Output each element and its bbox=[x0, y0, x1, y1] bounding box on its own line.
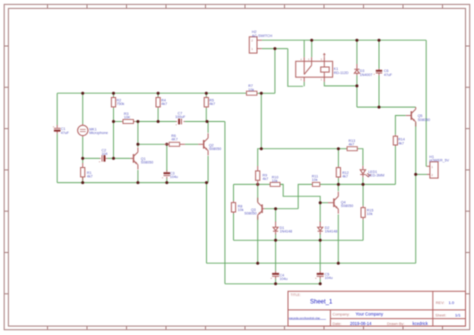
junction Q4 emitter / ground line bbox=[337, 262, 340, 265]
diode D1 bbox=[273, 222, 292, 235]
svg-text:+: + bbox=[99, 159, 101, 163]
svg-text:LED-3MM: LED-3MM bbox=[368, 174, 384, 178]
resistor R1 bbox=[81, 163, 93, 181]
junction R4 top / +V rail bbox=[157, 92, 160, 95]
connector H1 bbox=[427, 155, 450, 178]
svg-text:750k: 750k bbox=[117, 102, 125, 106]
svg-text:Sheet:: Sheet: bbox=[435, 313, 446, 317]
wire R1 branch bbox=[82, 158, 84, 182]
svg-text:+: + bbox=[162, 175, 164, 179]
wire D2 to steering line bbox=[319, 234, 321, 241]
svg-text:REV:: REV: bbox=[436, 301, 445, 305]
capacitor C3 bbox=[162, 170, 178, 179]
junction ground rail drop bbox=[205, 181, 208, 184]
wire relay common drop bbox=[288, 49, 303, 87]
junction R12 bottom / Q4 collector node bbox=[337, 183, 340, 186]
capacitor C2 bbox=[99, 148, 108, 163]
junction D3 bottom / relay coil return bbox=[355, 84, 358, 87]
wire R12 branch bbox=[337, 149, 339, 185]
junction D1 bottom / C4 top / steering line bbox=[274, 239, 277, 242]
junction D3 top / +5V line bbox=[355, 39, 358, 42]
wire C7 to Q2 collector node bbox=[185, 121, 225, 123]
svg-text:4k7: 4k7 bbox=[342, 175, 348, 179]
transistor Q5 bbox=[406, 107, 430, 126]
capacitor C7 bbox=[175, 111, 186, 126]
junction C2 right / R2-R3 drop / Q1 base bbox=[112, 157, 115, 160]
resistor R4 bbox=[156, 97, 167, 108]
svg-text:1N4148: 1N4148 bbox=[325, 229, 338, 233]
wire D1 to steering line bbox=[275, 234, 277, 241]
svg-text:1N4148: 1N4148 bbox=[280, 229, 293, 233]
wire R8 branch bbox=[233, 184, 235, 240]
wire R13 to LED bbox=[358, 149, 363, 166]
wire R4 branch bbox=[157, 93, 159, 121]
svg-text:100uF: 100uF bbox=[175, 115, 186, 119]
wire relay common pin fall bbox=[303, 82, 305, 87]
svg-text:4k7: 4k7 bbox=[209, 102, 215, 106]
svg-text:TITLE:: TITLE: bbox=[291, 293, 301, 297]
wire relay NO riser bbox=[303, 40, 305, 57]
capacitor C5 bbox=[315, 271, 333, 280]
svg-text:10k: 10k bbox=[248, 88, 254, 92]
junction R7 right / H2 riser / R9 feed bbox=[260, 92, 263, 95]
wire Q2 collector riser bbox=[207, 122, 209, 133]
svg-text:Microphone: Microphone bbox=[89, 131, 108, 135]
junction R1 bottom / ground rail bbox=[81, 181, 84, 184]
wire C4 branch bbox=[275, 240, 277, 283]
svg-text:104u: 104u bbox=[280, 277, 288, 281]
wire R5 branch bbox=[205, 93, 207, 121]
wire Q3 emitter fall bbox=[257, 216, 259, 263]
wire Q3 base line bbox=[264, 208, 298, 210]
wire H2 pin1 line bbox=[262, 48, 288, 50]
junction C3 top / R6 line bbox=[165, 143, 168, 146]
LED LED1 bbox=[360, 166, 384, 178]
wire Q1 emitter fall bbox=[137, 170, 139, 183]
svg-text:Sheet_1: Sheet_1 bbox=[310, 300, 333, 306]
microphone MK1 bbox=[78, 124, 108, 137]
transistor Q2 bbox=[198, 133, 221, 155]
resistor R15 bbox=[361, 206, 373, 220]
wire Q5 emitter fall bbox=[415, 122, 417, 263]
resistor R14 bbox=[393, 135, 404, 146]
svg-text:Date:: Date: bbox=[333, 322, 342, 326]
svg-text:4k7: 4k7 bbox=[349, 142, 355, 146]
wire +V rail to H2 riser bbox=[261, 49, 275, 94]
junction R3 right / Q1 collector branch bbox=[136, 120, 139, 123]
svg-text:10k: 10k bbox=[367, 212, 373, 216]
wire Q2 emitter fall bbox=[207, 156, 209, 183]
resistor R12 bbox=[336, 167, 348, 179]
junction C6 top / +5V line bbox=[378, 39, 381, 42]
wire Q4 collector riser bbox=[337, 184, 339, 191]
svg-text:+: + bbox=[373, 72, 375, 76]
wire relay coil riser bbox=[311, 40, 313, 57]
svg-text:104u: 104u bbox=[170, 175, 178, 179]
junction Q3 base / D1 top bbox=[274, 207, 277, 210]
svg-text:1.0: 1.0 bbox=[449, 300, 455, 305]
wire trigger rail bottom bbox=[225, 283, 320, 285]
wire C6 branch bbox=[378, 40, 380, 107]
junction Q1 collector / R6 line bbox=[136, 143, 139, 146]
wire ground rail bottom bbox=[207, 262, 416, 264]
svg-text:4K7: 4K7 bbox=[171, 137, 177, 141]
wire ground drop left bbox=[206, 183, 208, 264]
svg-text:1N4007: 1N4007 bbox=[360, 73, 373, 77]
diode D3 bbox=[354, 64, 372, 77]
junction Q3 emitter / ground line bbox=[256, 262, 259, 265]
wire cross-coupling R10 to Q4 base bbox=[280, 184, 320, 202]
wire R7 drop bbox=[260, 93, 262, 148]
wire Q4 emitter fall bbox=[337, 214, 339, 263]
svg-text:RD-112D: RD-112D bbox=[334, 71, 349, 75]
wire mic bottom to signal node bbox=[82, 137, 84, 159]
wire supply to R13 bbox=[338, 148, 346, 150]
wire C3 branch bbox=[166, 144, 168, 182]
wire Q4 node to R14 corner bbox=[363, 183, 395, 185]
wire signal line mic to C2 bbox=[83, 157, 100, 159]
svg-text:S08050: S08050 bbox=[418, 118, 430, 122]
wire R14 top to Q5 base bbox=[395, 116, 405, 135]
capacitor C6 bbox=[373, 69, 393, 77]
capacitor C1 bbox=[53, 125, 70, 135]
wire left supply drop (C1 branch) bbox=[56, 93, 58, 182]
junction R7 drop / R9 top / flipflop supply bbox=[260, 147, 263, 150]
svg-text:+: + bbox=[53, 125, 55, 129]
wire Q4 base line bbox=[320, 202, 328, 204]
resistor R10 bbox=[270, 175, 281, 186]
resistor R3 bbox=[122, 112, 135, 124]
wire trigger drop bbox=[224, 122, 226, 284]
svg-text:4k7: 4k7 bbox=[263, 177, 269, 181]
svg-text:104u: 104u bbox=[325, 276, 333, 280]
resistor R9 bbox=[256, 166, 269, 185]
svg-text:+: + bbox=[315, 276, 317, 280]
svg-text:10K: 10K bbox=[124, 116, 131, 120]
svg-text:Your Company: Your Company bbox=[356, 312, 384, 317]
wire +5V H1 riser bbox=[425, 40, 428, 166]
svg-text:S08050: S08050 bbox=[341, 204, 353, 208]
svg-text:S08050: S08050 bbox=[141, 161, 153, 165]
junction relay coil riser / +5V line bbox=[310, 39, 313, 42]
wire R6 to Q2 base bbox=[185, 143, 198, 145]
wire flipflop supply line bbox=[261, 148, 338, 150]
resistor R2 bbox=[111, 97, 124, 108]
wire collector rail to C7 bbox=[158, 121, 176, 123]
resistor R7 bbox=[246, 84, 258, 95]
wire ground rail left bbox=[57, 182, 208, 184]
wire D2 top stub bbox=[319, 203, 321, 222]
junction R4 bottom / C7 left bbox=[157, 120, 160, 123]
junction MK1 top / +V rail bbox=[81, 92, 84, 95]
wire C5 branch bbox=[319, 240, 321, 283]
svg-text:Company:: Company: bbox=[333, 312, 350, 316]
wire Q1 collector to R6 bbox=[138, 143, 165, 145]
wire LED to Q4 collector node bbox=[362, 177, 364, 184]
wire mic top bbox=[82, 93, 84, 124]
wire D3 branch bbox=[356, 40, 358, 107]
resistor R8 bbox=[231, 201, 243, 214]
svg-text:AC-SWITCH: AC-SWITCH bbox=[252, 34, 273, 38]
wire R2 branch bbox=[113, 93, 115, 158]
wire H1 pin2 stub bbox=[416, 173, 427, 175]
svg-text:4k7: 4k7 bbox=[87, 175, 93, 179]
transistor Q3 bbox=[244, 198, 264, 220]
wire Q5 collector line bbox=[357, 106, 416, 108]
wire C2 to Q1 base bbox=[107, 157, 130, 159]
relay K1 bbox=[296, 53, 349, 81]
junction Q1 emitter / ground rail bbox=[136, 181, 139, 184]
wire Q3 collector riser bbox=[257, 184, 259, 202]
svg-text:10k: 10k bbox=[272, 179, 278, 183]
junction R12 top / R13 left / supply line bbox=[337, 147, 340, 150]
svg-text:+: + bbox=[270, 276, 272, 280]
wire R14 to Q4 node bbox=[394, 146, 396, 184]
svg-text:104: 104 bbox=[102, 152, 108, 156]
connector H2 bbox=[249, 30, 272, 53]
wire Q1 collector riser bbox=[137, 122, 139, 147]
wire base bias rail bbox=[114, 121, 159, 123]
resistor R13 bbox=[347, 139, 358, 151]
svg-text:1/1: 1/1 bbox=[455, 313, 461, 318]
wire R15 branch bbox=[362, 184, 364, 240]
wire cross-coupling R11 to Q3 base bbox=[298, 184, 312, 208]
junction R2 bottom / R3 left bbox=[112, 120, 115, 123]
svg-text:Drawn By:: Drawn By: bbox=[387, 322, 405, 326]
diode D2 bbox=[318, 222, 338, 235]
svg-text:10k: 10k bbox=[238, 208, 244, 212]
wire +5V top line bbox=[262, 39, 426, 41]
svg-text:4k7: 4k7 bbox=[398, 141, 404, 145]
wire D1 top stub bbox=[275, 209, 277, 222]
svg-text:47uF: 47uF bbox=[384, 73, 393, 77]
junction C3 bottom / ground rail bbox=[165, 181, 168, 184]
junction R2 top / +V rail bbox=[112, 92, 115, 95]
junction R9 bottom / Q3 collector node bbox=[256, 183, 259, 186]
junction R5 top / +V rail bbox=[205, 92, 208, 95]
junction D2 bottom / C5 top / steering line bbox=[319, 239, 322, 242]
svg-text:2019-08-14: 2019-08-14 bbox=[350, 321, 372, 326]
junction C5 bottom / trigger line bbox=[319, 282, 322, 285]
junction R5 bottom / Q2 collector / trigger bbox=[206, 120, 209, 123]
wire relay coil to D3 node bbox=[324, 82, 357, 86]
svg-text:kcedrick: kcedrick bbox=[413, 321, 429, 326]
transistor Q1 bbox=[130, 147, 153, 169]
capacitor C4 bbox=[270, 271, 287, 281]
transistor Q4 bbox=[328, 192, 353, 214]
junction Q4 base / D2 top bbox=[319, 201, 322, 204]
junction C6 bottom / Q5 collector line bbox=[378, 106, 381, 109]
svg-text:S08050: S08050 bbox=[209, 147, 221, 151]
svg-text:S08050: S08050 bbox=[244, 212, 256, 216]
wire +V top rail bbox=[57, 92, 261, 94]
wire Q3 collector segment bbox=[234, 183, 270, 185]
svg-text:4k7: 4k7 bbox=[161, 102, 167, 106]
junction Q5 emitter / H1 pin2 bbox=[414, 173, 417, 176]
wire mid segment R10-R11 bbox=[280, 183, 283, 185]
wire Q4 collector segment bbox=[320, 183, 363, 185]
wire R9 branch bbox=[258, 149, 262, 186]
junction C4 bottom / trigger line bbox=[274, 282, 277, 285]
junction LED1 bottom / R15 top bbox=[362, 183, 365, 186]
junction H2 pin1 line / +V riser bbox=[273, 47, 276, 50]
wire steering line bbox=[234, 239, 364, 241]
svg-text:pOWER_5V: pOWER_5V bbox=[429, 158, 449, 162]
title block bbox=[288, 291, 466, 326]
resistor R6 bbox=[165, 134, 185, 147]
svg-text:10k: 10k bbox=[312, 178, 318, 182]
resistor R5 bbox=[204, 97, 215, 108]
junction MK1 bottom / R1 top / C2 left bbox=[81, 157, 84, 160]
svg-text:47uF: 47uF bbox=[61, 131, 70, 135]
resistor R11 bbox=[312, 174, 320, 186]
